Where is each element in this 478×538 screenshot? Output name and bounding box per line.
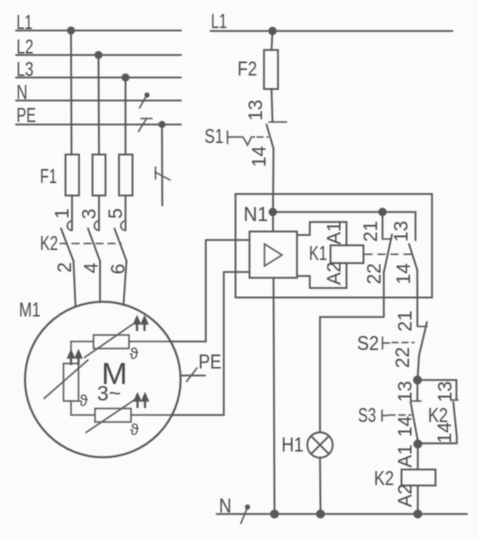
junction L2 tap <box>95 51 103 59</box>
wire contact3 to motor <box>124 261 127 305</box>
wire PE line <box>16 124 181 126</box>
svg-text:F2: F2 <box>238 58 258 80</box>
svg-text:22: 22 <box>365 263 386 284</box>
svg-text:5: 5 <box>106 208 127 219</box>
svg-text:ϑ: ϑ <box>79 393 88 410</box>
wire S2 to junction <box>418 356 420 381</box>
svg-text:3: 3 <box>80 209 101 220</box>
K1 mechanical link (dashed) <box>365 253 411 255</box>
wire triangle supply in <box>272 212 274 232</box>
wire thermistor chain left top <box>71 342 94 364</box>
svg-text:14: 14 <box>394 263 415 285</box>
svg-text:22: 22 <box>393 347 414 368</box>
junction H1 at N <box>316 510 325 519</box>
thermistor top body <box>94 335 130 349</box>
wire 22 branch to H1 <box>320 317 384 432</box>
junction N1 output at N <box>270 510 279 519</box>
wire L1 right line <box>211 30 453 32</box>
svg-text:3~: 3~ <box>97 383 121 406</box>
wire H1 to N <box>319 458 322 514</box>
svg-text:K1: K1 <box>309 243 327 265</box>
svg-text:A2: A2 <box>325 262 346 285</box>
thermistor bottom diagonal <box>86 400 135 433</box>
wire sensor line 1 (motor to N1) <box>171 240 250 342</box>
K2 main contact 3 hook <box>121 221 126 230</box>
thermistor top diagonal <box>85 324 134 358</box>
svg-text:14: 14 <box>250 146 271 168</box>
svg-text:PE: PE <box>199 352 222 374</box>
switch S1 lever <box>267 125 274 149</box>
contact K1 21-22 fixed <box>382 212 384 239</box>
motor PE terminal <box>181 368 206 382</box>
wire contact1 to motor <box>74 261 76 307</box>
contact S2 tick <box>417 326 427 328</box>
svg-text:L1: L1 <box>211 11 227 33</box>
wire contact2 to motor <box>99 261 101 302</box>
fuse F1 pole 1 <box>66 155 80 196</box>
junction L1 tap <box>67 27 75 35</box>
thermistor left arrows <box>68 352 81 366</box>
contact S2 lever <box>419 322 427 356</box>
K2 main contact 1 lever <box>61 229 74 262</box>
contact K1 21-22 lever <box>384 235 392 272</box>
svg-text:21: 21 <box>361 221 382 242</box>
svg-text:F1: F1 <box>40 166 57 188</box>
coil K2 <box>402 470 436 486</box>
amplifier block (trip unit) <box>250 232 298 278</box>
wire PE drop <box>161 125 163 206</box>
svg-text:1: 1 <box>53 208 74 219</box>
wire branch to K2 aux <box>418 380 457 400</box>
switch S1 actuator <box>228 131 269 145</box>
switch S2 actuator <box>383 337 415 349</box>
svg-text:K2: K2 <box>40 233 58 255</box>
wire N line <box>16 100 181 102</box>
wire thermistor top to circle edge <box>129 341 171 343</box>
N continuation mark <box>140 92 150 108</box>
wire sensor line 2 (motor to N1) <box>172 272 250 415</box>
contact K1 21-22 tick <box>383 238 392 240</box>
wire fuse2 to contact <box>98 196 100 231</box>
svg-text:M1: M1 <box>19 300 41 322</box>
thermistor bottom arrows <box>135 395 148 409</box>
wire L2 line <box>16 54 181 56</box>
svg-text:A2: A2 <box>396 484 417 507</box>
svg-text:K2: K2 <box>374 468 394 490</box>
junction N1 supply <box>269 208 277 216</box>
lamp H1 <box>307 432 332 457</box>
fuse F1 pole 3 <box>119 155 133 196</box>
svg-text:13: 13 <box>436 381 457 402</box>
thermistor left body <box>64 364 79 402</box>
thermistor bottom body <box>95 409 131 423</box>
wire L1 to F2 <box>272 31 273 50</box>
svg-text:A1: A1 <box>396 444 417 467</box>
K2 main contact 1 hook <box>67 221 72 230</box>
K2 mechanical link (dashed) <box>60 243 121 245</box>
junction K2 coil at N <box>413 510 422 519</box>
relay K1 coil <box>331 245 364 263</box>
svg-text:A1: A1 <box>325 221 346 244</box>
wire S1 to N1 box <box>272 149 275 213</box>
wire N1 internal bus <box>273 212 416 240</box>
wire L3 line <box>16 77 181 79</box>
fuse F1 pole 2 <box>93 155 106 196</box>
motor M1 circle <box>25 302 181 458</box>
wire A1 to coil <box>417 444 419 470</box>
junction PE tap <box>158 121 165 128</box>
junction K1 21 <box>378 208 386 216</box>
wire N1 output down to N <box>274 278 275 514</box>
contact K2 aux tick <box>451 399 459 401</box>
PE continuation mark <box>139 119 153 132</box>
wire thermistor chain left bottom <box>71 401 95 415</box>
wire thermistor bottom to circle edge <box>131 414 172 416</box>
wire L1 line <box>16 30 181 32</box>
svg-text:S1: S1 <box>205 126 224 148</box>
thermistor top arrows <box>134 318 147 332</box>
svg-text:ϑ: ϑ <box>130 346 139 363</box>
wire junction to S3 <box>416 380 418 401</box>
wire K1 22 down <box>383 272 385 318</box>
wire N bottom line <box>217 513 468 515</box>
svg-text:S3: S3 <box>358 405 376 427</box>
device N1 box <box>236 194 433 298</box>
switch S1 fixed tick <box>269 121 287 123</box>
K2 main contact 2 hook <box>94 221 99 230</box>
wire S3 to junction A1 <box>416 438 419 444</box>
junction L1 right tap <box>268 27 276 35</box>
junction L3 tap <box>122 74 130 82</box>
amplifier triangle <box>265 244 283 266</box>
wire K1 14 down <box>416 270 418 326</box>
svg-text:14: 14 <box>396 416 417 438</box>
K2 main contact 3 lever <box>115 229 127 262</box>
wire L1 drop <box>70 31 73 155</box>
thermistor left diagonal <box>44 360 88 399</box>
contact S3 lever <box>411 402 418 439</box>
switch S3 actuator <box>382 410 411 421</box>
svg-text:13: 13 <box>396 381 417 402</box>
fuse F2 <box>264 50 278 89</box>
svg-text:H1: H1 <box>282 435 304 457</box>
wire K2 aux return <box>418 437 457 444</box>
svg-text:14: 14 <box>435 422 456 444</box>
svg-text:21: 21 <box>396 310 417 331</box>
svg-text:N1: N1 <box>244 204 269 226</box>
relay K1 block outline <box>297 222 347 288</box>
junction S2/S3/K2 <box>413 376 422 385</box>
wire L2 drop <box>98 55 101 155</box>
contact K1 13-14 lever <box>409 244 417 270</box>
svg-text:S2: S2 <box>357 333 379 355</box>
N continuation mark (bottom) <box>241 504 250 523</box>
wire fuse3 to contact <box>125 196 127 231</box>
wire F2 to S1 <box>272 89 273 122</box>
svg-text:ϑ: ϑ <box>130 422 139 439</box>
contact S3 tick <box>412 400 422 402</box>
wire coil to N <box>417 486 419 515</box>
wire L3 drop <box>125 78 127 155</box>
junction A1 <box>413 440 422 449</box>
K2 main contact 2 lever <box>88 229 100 262</box>
PE conductor mark on drop <box>155 167 170 180</box>
contact K2 aux lever <box>453 402 457 437</box>
svg-text:13: 13 <box>246 100 267 121</box>
svg-text:13: 13 <box>392 221 413 242</box>
wire fuse1 to contact <box>71 196 73 231</box>
